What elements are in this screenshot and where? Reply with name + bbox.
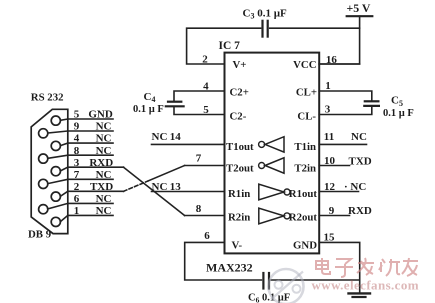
wire C3 to +5V rail (270, 27, 360, 29)
wire pin 15 GND to ground (319, 242, 360, 292)
wire pin 5 C2- (174, 107, 225, 114)
svg-text:RXD: RXD (89, 157, 113, 169)
svg-text:3: 3 (325, 104, 331, 116)
buffer R2 inverter triangle (259, 208, 290, 224)
DB9 pin 8 circle (39, 154, 48, 163)
svg-text:15: 15 (324, 232, 336, 244)
svg-text:4: 4 (74, 133, 80, 145)
svg-text:NC: NC (96, 145, 112, 157)
ground bar 2 (353, 296, 366, 298)
wire DB9 pin7 NC (48, 179, 113, 183)
buffer T2 inverter triangle (259, 158, 284, 173)
svg-text:8: 8 (196, 203, 202, 215)
svg-text:12: 12 (324, 181, 336, 193)
svg-text:8: 8 (74, 145, 80, 157)
buffer T1 inverter triangle (259, 137, 284, 152)
svg-text:2: 2 (202, 54, 208, 66)
svg-text:10: 10 (324, 155, 336, 167)
wire C6 to ground rail (271, 279, 360, 281)
wire pin 11 T1in NC (319, 143, 366, 145)
svg-text:GND: GND (88, 109, 113, 121)
svg-text:TXD: TXD (90, 181, 113, 193)
wire pin 12 R1out NC (319, 191, 358, 193)
svg-text:3: 3 (74, 157, 80, 169)
svg-text:9: 9 (329, 205, 335, 217)
wire pin 8 R2in (185, 215, 225, 217)
svg-text:T2out: T2out (226, 163, 254, 175)
svg-text:T1in: T1in (294, 141, 316, 153)
svg-text:1: 1 (325, 80, 331, 92)
capacitor C6 left plate (262, 273, 264, 289)
svg-text:14: 14 (170, 131, 182, 143)
wire pin 14 T1out NC (152, 143, 225, 145)
wire DB9 pin8 NC (48, 155, 113, 158)
capacitor C4 bottom plate (166, 105, 184, 107)
svg-text:6: 6 (204, 230, 210, 242)
IC U7 MAX232 box (225, 53, 320, 254)
svg-text:NC: NC (96, 193, 112, 205)
svg-text:6: 6 (74, 193, 80, 205)
wire DB9 pin6 NC (48, 203, 113, 209)
svg-text:0.1 µ F: 0.1 µ F (383, 108, 414, 119)
IC outer pin numbers and names right (324, 54, 372, 244)
svg-text:R2out: R2out (289, 212, 318, 224)
wire pin 3 CL- (319, 107, 372, 115)
svg-text:DB 9: DB 9 (28, 229, 52, 241)
svg-text:RXD: RXD (348, 205, 372, 217)
svg-text:+5 V: +5 V (347, 1, 371, 15)
svg-text:5: 5 (203, 104, 209, 116)
svg-text:NC: NC (96, 205, 112, 217)
svg-text:13: 13 (170, 181, 182, 193)
wire pin 13 R1in NC (152, 191, 225, 193)
wire DB9 pin2 TXD (60, 191, 123, 196)
wire DB9 pin9 NC (48, 131, 113, 133)
capacitor C4 top plate (168, 101, 181, 103)
wire crossover TXD to T2out dashed part (124, 181, 149, 191)
svg-text:NC: NC (96, 133, 112, 145)
svg-text:GND: GND (293, 240, 317, 252)
DB9 pin 6 circle (39, 205, 48, 214)
wire pin 10 T2in TXD (319, 165, 349, 167)
DB9 pin 3 circle (51, 167, 60, 176)
svg-text:R1in: R1in (228, 188, 250, 200)
svg-text:7: 7 (196, 152, 202, 164)
svg-text:1: 1 (74, 205, 80, 217)
svg-text:4: 4 (203, 81, 209, 93)
svg-text:NC: NC (152, 131, 168, 143)
svg-text:www.elecfans.com: www.elecfans.com (312, 278, 420, 293)
svg-text:V-: V- (232, 240, 243, 252)
wire crossover RXD to R2in (124, 167, 185, 215)
wire pin 16 VCC stub (319, 63, 359, 65)
svg-text:5: 5 (74, 109, 80, 121)
wire crossover TXD to T2out (148, 166, 185, 182)
wire pin 2 V+ (187, 28, 261, 64)
wire pin 7 T2out (185, 165, 225, 167)
DB9 pin number and name labels (74, 109, 113, 217)
capacitor C5 top plate (365, 100, 379, 102)
DB9 pin 7 circle (39, 179, 48, 188)
svg-text:IC 7: IC 7 (219, 40, 241, 52)
capacitor C5 bottom plate (364, 105, 379, 107)
DB9 pin 9 circle (39, 129, 48, 138)
svg-text:V+: V+ (233, 59, 247, 71)
svg-text:C3 0.1 µF: C3 0.1 µF (243, 8, 288, 21)
svg-text:CL+: CL+ (296, 87, 317, 99)
svg-text:2: 2 (74, 181, 80, 193)
svg-text:NC: NC (96, 169, 112, 181)
buffer R1 inverter triangle (259, 184, 290, 200)
wire pin 9 R2out RXD (319, 215, 349, 217)
svg-text:NC: NC (351, 131, 367, 143)
svg-text:16: 16 (326, 54, 338, 66)
wire DB9 pin3 RXD (60, 167, 123, 171)
svg-text:R1out: R1out (289, 188, 318, 200)
wire +5V down to VCC (319, 16, 359, 64)
capacitor C6 right plate (268, 273, 270, 289)
wire pin 4 C2+ (174, 91, 225, 101)
DB9 pin 4 circle (51, 141, 60, 150)
svg-text:7: 7 (74, 169, 80, 181)
svg-text:9: 9 (74, 121, 80, 133)
DB9 pin 2 circle (51, 192, 60, 201)
svg-text:CL-: CL- (297, 111, 316, 123)
svg-text:C2+: C2+ (230, 87, 249, 99)
svg-text:TXD: TXD (349, 156, 372, 168)
watermark logo circles (269, 269, 304, 303)
wire DB9 pin1 NC (60, 215, 113, 221)
svg-text:0.1 µ F: 0.1 µ F (133, 104, 164, 115)
svg-text:11: 11 (324, 131, 334, 143)
power +5V rail bar (347, 15, 373, 17)
IC inner pin names (226, 59, 317, 252)
svg-text:· NC: · NC (344, 181, 366, 193)
wire DB9 pin5 GND (60, 119, 113, 120)
svg-text:MAX232: MAX232 (206, 261, 253, 275)
svg-text:VCC: VCC (293, 59, 316, 71)
watermark text dianzifashaoyou (316, 258, 418, 277)
svg-text:RS 232: RS 232 (31, 92, 64, 104)
DB9 pin 5 circle (51, 116, 60, 125)
svg-text:T2in: T2in (294, 163, 316, 175)
capacitor C3 left plate (261, 21, 263, 37)
svg-text:T1out: T1out (226, 141, 254, 153)
DB9 pin 1 circle (51, 217, 60, 226)
IC outer pin numbers left (152, 54, 211, 243)
capacitor C3 right plate (267, 21, 269, 37)
wire DB9 pin4 NC (60, 143, 113, 146)
wire pin 1 CL+ (319, 91, 372, 100)
svg-text:NC: NC (152, 181, 168, 193)
connector DB9 body (31, 109, 68, 233)
svg-text:C2-: C2- (230, 111, 247, 123)
ground bar 1 (349, 292, 371, 294)
wire pin 6 V- loop (185, 242, 262, 280)
svg-text:NC: NC (96, 121, 112, 133)
svg-text:R2in: R2in (228, 212, 250, 224)
